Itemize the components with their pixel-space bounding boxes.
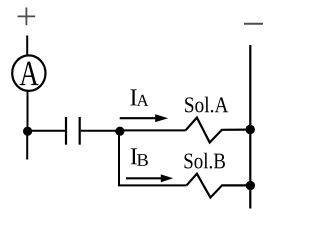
label IA : I [130,89,136,105]
wire capacitor to node B [81,130,120,132]
label IB : I [131,148,137,164]
plus terminal [18,8,36,26]
capacitor C1 right plate [79,117,81,145]
ammeter A1 circle [12,55,45,91]
capacitor C1 left plate [65,117,67,145]
resistor Sol.B zigzag [187,174,250,198]
current arrow IA [120,114,169,122]
node QA junction dot [246,125,255,134]
minus terminal [244,23,263,25]
wire plus to ammeter [26,36,28,57]
label IA subscript A [137,95,149,106]
label Sol.A [185,97,228,113]
wire node B to resistor SolA [120,129,186,131]
wire ammeter to node P [27,90,29,131]
node B junction dot [115,127,124,136]
resistor Sol.A zigzag [186,118,250,143]
wire node P to capacitor [28,130,65,132]
label Sol.B [184,153,225,169]
ammeter A1 label [20,62,39,85]
wire node B down for branch B [119,131,187,185]
current arrow IB [126,174,173,182]
node QB junction dot [246,181,255,190]
label IB subscript B [137,154,148,166]
right rail wire [249,45,251,209]
wire stub below node P [26,131,28,160]
node P junction dot [23,127,32,136]
